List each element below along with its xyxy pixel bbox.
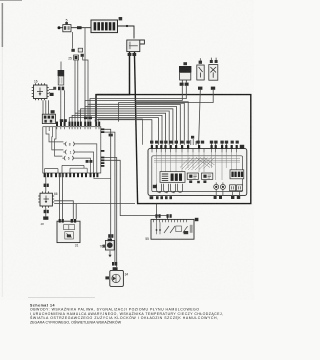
wire box right pin D to switch unit bbox=[104, 160, 167, 219]
svg-text:ŚWIATŁA OSTRZEGAWCZEGO ZUŻYCIA: ŚWIATŁA OSTRZEGAWCZEGO ZUŻYCIA KLOCKÓW I… bbox=[30, 315, 218, 320]
wire bus staircase line 3 bbox=[75, 113, 166, 145]
component 10/40 (top-right: oil/temp sender) bbox=[179, 62, 191, 82]
wire comp41 pin to bus bbox=[119, 90, 214, 122]
wire code labels 18 18 above strip bbox=[60, 117, 92, 122]
warning lamp right bbox=[220, 184, 225, 189]
connector strip pins (main harness row) bbox=[56, 122, 100, 126]
cluster label 8 box bbox=[240, 145, 244, 149]
label 42 wire mark bbox=[50, 93, 54, 96]
wire module66 bottom to ground bbox=[45, 208, 47, 217]
wire IC16 pins down to connector 12 bbox=[43, 100, 49, 114]
svg-text:OBWODY: WSKAŹNIKA PALIWA, SYGN: OBWODY: WSKAŹNIKA PALIWA, SYGNALIZACJI P… bbox=[30, 306, 199, 311]
wire terminal to component 5 bbox=[61, 27, 64, 29]
cluster bottom connector marks bbox=[150, 196, 241, 199]
svg-text:34: 34 bbox=[125, 272, 129, 276]
wire bus upper branch 2 to cluster pin bbox=[136, 102, 188, 145]
warning lamp left bbox=[214, 184, 219, 189]
switch unit 55 (brake fluid cap switch assembly) bbox=[151, 219, 194, 239]
IC 16 (electronic module) bbox=[32, 83, 49, 100]
wire IC16 right pins bbox=[49, 90, 54, 93]
connector loop (1) bbox=[63, 150, 75, 154]
wire extra fan drops bbox=[191, 139, 196, 145]
svg-text:I URUCHOMIENIA HAMULCA AWARYJN: I URUCHOMIENIA HAMULCA AWARYJNEGO, WSKAŹ… bbox=[30, 311, 223, 316]
connector marks above 34 bbox=[112, 262, 118, 270]
wire code marks inside box lower right bbox=[86, 160, 93, 163]
digital clock module 88:88 bbox=[230, 170, 244, 179]
wire comp10 pins to bus bbox=[85, 86, 186, 122]
wire box right pin A down bbox=[104, 129, 110, 241]
wire box right pin C down (parallel) bbox=[104, 158, 116, 268]
svg-text:8: 8 bbox=[69, 142, 71, 146]
wire box right pin B down bbox=[104, 132, 115, 265]
wire stubs above cluster right pins bbox=[212, 142, 227, 145]
wire resistor pack to connector 40 bbox=[118, 26, 135, 39]
pin labels 40 40 bbox=[180, 83, 189, 86]
paper grain bbox=[0, 0, 254, 300]
fuel gauge display module bbox=[160, 172, 185, 183]
branch cluster 25 (connectors near fuel gauge feed) bbox=[71, 28, 85, 122]
svg-text:1: 1 bbox=[70, 151, 72, 155]
instrument cluster unit 8 bbox=[148, 145, 247, 199]
connector marks above 76 bbox=[108, 234, 113, 238]
pin labels above cluster pins bbox=[150, 136, 239, 144]
svg-text:76: 76 bbox=[100, 245, 104, 249]
junction box (printed circuit behind cluster) bbox=[43, 127, 101, 173]
label 30 left of 34 bbox=[105, 276, 109, 279]
indicator module right bbox=[197, 173, 213, 183]
wire bus staircase line 2 bbox=[72, 115, 162, 144]
sensor 34 (coolant temperature gauge sender) bbox=[110, 270, 124, 286]
wire relay pins up bbox=[60, 174, 63, 219]
wire bus staircase line 6 bbox=[85, 107, 177, 145]
wire code label 40 bbox=[77, 26, 82, 29]
wire bus staircase line 5 bbox=[81, 109, 173, 145]
wire cluster25 right pin down bbox=[83, 57, 88, 122]
wire code below 41 bbox=[211, 87, 215, 90]
cluster pin comb inside top edge bbox=[152, 149, 237, 152]
svg-text:55: 55 bbox=[145, 237, 149, 241]
wire relay second feed bbox=[75, 203, 77, 219]
label 18 near right pins bbox=[109, 134, 113, 137]
wire harness tap to switch unit left pin bbox=[156, 204, 158, 220]
wire sender pins down bbox=[61, 90, 65, 121]
lamp wires to bottom edge bbox=[216, 182, 239, 195]
connector 40 (bulkhead connector) bbox=[127, 40, 145, 52]
wire row to cluster pin low path 2 bbox=[98, 119, 142, 145]
sensor 43 (fuel level sender) bbox=[53, 62, 64, 91]
connector loop (8) bbox=[63, 142, 75, 146]
fold crease mark bbox=[28, 297, 95, 299]
component 41 (handbrake switch) bbox=[209, 58, 218, 81]
ground 48 bbox=[41, 216, 49, 225]
wire bus staircase line 7 bbox=[88, 104, 180, 145]
wire bus staircase line 4 bbox=[78, 111, 169, 145]
wire bus upper branch to cluster pin bbox=[136, 103, 184, 145]
pin labels 40 40 under connector bbox=[128, 53, 137, 56]
cluster outer case bbox=[148, 149, 247, 196]
connector marks above module66 bbox=[44, 184, 49, 187]
internal diagonal wire bundle bbox=[180, 158, 215, 171]
wire cluster25 down-right pin bbox=[77, 60, 79, 121]
dropping resistor pair bottom right bbox=[230, 185, 243, 191]
node junction dot bbox=[126, 25, 128, 27]
svg-text:66: 66 bbox=[54, 192, 58, 196]
connector marks below module66 bbox=[44, 210, 49, 213]
connector loop (6) bbox=[62, 156, 74, 160]
label on switch unit top-right bbox=[195, 218, 199, 221]
indicator module left bbox=[187, 173, 198, 183]
wire connector40 right pin: thick harness loop around cluster bbox=[97, 52, 251, 204]
svg-text:5: 5 bbox=[66, 19, 68, 23]
lamp socket loops row bbox=[157, 184, 183, 193]
wire connector40 left pin down (thick harness) bbox=[96, 52, 130, 122]
component 5 (ignition feed connector) bbox=[63, 22, 71, 32]
internal wiring verticals bbox=[154, 152, 240, 184]
wire cluster25 down-left pin bbox=[74, 60, 76, 121]
svg-text:ZEGARA CYFROWEGO, OŚWIETLENIA: ZEGARA CYFROWEGO, OŚWIETLENIA WSKAŹNIKÓW bbox=[30, 320, 122, 325]
wire comp36 straight down to cluster pin bbox=[199, 90, 201, 145]
caption body text bbox=[30, 306, 223, 324]
wire component5 to resistor pack bbox=[71, 27, 91, 29]
label 30 inside cluster bbox=[153, 185, 157, 188]
wire code below 36 bbox=[198, 87, 202, 90]
wires junction box loops to bottom pins bbox=[62, 144, 97, 173]
connector block 12 on harness row bbox=[42, 110, 55, 123]
wire bus staircase line 1 bbox=[69, 118, 158, 145]
junction box right-side pins bbox=[101, 128, 105, 166]
relay 31 (hazard/brake warning relay) bbox=[57, 221, 80, 242]
svg-text:16: 16 bbox=[34, 79, 38, 83]
svg-text:6: 6 bbox=[68, 157, 70, 161]
node battery terminal dot bbox=[58, 26, 61, 29]
connector marks above switch unit bbox=[155, 214, 171, 218]
scan page edge top bbox=[0, 0, 22, 1]
component 36 (brake fluid level switch) bbox=[197, 58, 204, 80]
label 47 bbox=[119, 17, 123, 20]
junction box bottom pins bbox=[44, 173, 99, 177]
sensor 76 (brake pad wear) bbox=[103, 239, 115, 250]
resistor pack 47 (printed circuit strip) bbox=[91, 20, 118, 33]
svg-text:25: 25 bbox=[68, 56, 72, 60]
cluster top pin marks bbox=[151, 145, 238, 149]
wire box bottom pin lateral link bbox=[94, 177, 111, 178]
scan page edge left bbox=[2, 3, 3, 47]
svg-text:48: 48 bbox=[41, 222, 45, 226]
module 66 (electronic switch unit) bbox=[38, 191, 54, 207]
svg-text:31: 31 bbox=[75, 244, 79, 248]
junction box top comb stubs bbox=[57, 127, 99, 130]
wire row to cluster pin low path bbox=[95, 120, 152, 145]
wire module66 right pins to relay31 bbox=[54, 201, 135, 220]
wire module66 top bbox=[45, 174, 47, 192]
cluster inner frame bbox=[152, 156, 243, 192]
ground below 76 bbox=[109, 251, 111, 255]
relay31 top pins bbox=[59, 219, 77, 223]
